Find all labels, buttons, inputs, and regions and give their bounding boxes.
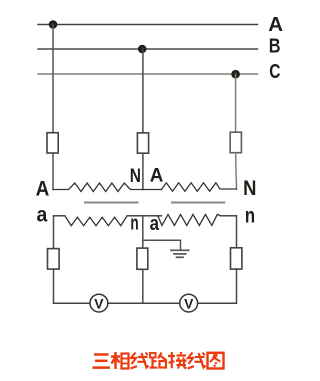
voltmeter V1 — [90, 294, 108, 312]
svg-text:C: C — [269, 61, 280, 83]
wire fuse F4 to voltmeter bus — [53, 269, 55, 303]
transformer T2 core bar — [172, 202, 224, 204]
fuse F3 — [230, 132, 241, 153]
bus line B (phase B horizontal) — [38, 48, 258, 50]
char 相 — [111, 352, 129, 369]
wire secondary T2 n-end down to fuse F6 — [236, 216, 238, 248]
svg-text:B: B — [269, 35, 281, 57]
char 三 — [93, 355, 111, 368]
voltmeter bus segment left — [54, 302, 91, 304]
node dot on phase A — [49, 20, 58, 29]
voltmeter V2 — [180, 294, 198, 312]
fuse F4 — [48, 249, 60, 270]
node dot on phase C — [231, 70, 240, 79]
svg-text:N: N — [243, 177, 256, 200]
wire fuse F3 to primary winding T2 — [235, 153, 238, 189]
wire from phase B down to fuse F2 — [142, 49, 144, 133]
secondary winding T2 (a-n zigzag) — [158, 214, 237, 225]
voltmeter bus segment right — [198, 302, 237, 304]
wire from phase A down to fuse F1 — [52, 25, 54, 133]
wire fuse F2 to primary junction node — [142, 153, 144, 189]
svg-text:a: a — [37, 203, 48, 226]
wire secondary T1 a-end down to fuse F4 — [53, 216, 55, 249]
svg-text:V: V — [94, 296, 104, 311]
svg-text:N: N — [130, 165, 141, 187]
char 线 (second) — [188, 353, 206, 369]
ground symbol — [171, 250, 189, 257]
char 图 — [208, 353, 224, 369]
svg-text:A: A — [150, 165, 164, 187]
fuse F1 — [47, 133, 58, 153]
svg-text:A: A — [268, 14, 283, 36]
char 接 — [168, 352, 187, 369]
fuse F5 (neutral) — [137, 248, 148, 269]
primary winding T1 (A-N zigzag) — [53, 183, 162, 192]
fuse F6 — [231, 248, 242, 269]
bus line C (phase C horizontal) — [38, 73, 258, 75]
wire fuse F5 to voltmeter bus — [142, 269, 144, 303]
char 路 — [150, 353, 167, 368]
wire fuse F6 to voltmeter bus — [236, 269, 238, 303]
fuse F2 — [137, 133, 148, 153]
voltmeter bus segment middle — [108, 302, 180, 304]
wire neutral junction down from n/a node — [142, 216, 144, 248]
char 线 — [131, 353, 149, 369]
earthing branch wire — [143, 240, 181, 250]
svg-text:V: V — [184, 296, 194, 311]
svg-text:n: n — [130, 213, 138, 235]
title 三相线路接线图 (drawn strokes) — [93, 352, 224, 369]
transformer T1 core bar — [85, 202, 138, 204]
node dot on phase B — [138, 45, 147, 54]
svg-text:A: A — [36, 177, 50, 200]
svg-text:n: n — [245, 204, 255, 227]
wire from phase C down to fuse F3 — [235, 74, 237, 132]
bus line A (phase A horizontal) — [38, 24, 258, 26]
primary winding T2 (A-N zigzag) — [162, 183, 237, 192]
wire fuse F1 to primary winding T1 — [52, 153, 54, 190]
secondary winding T1 (a-n zigzag) — [54, 216, 162, 226]
